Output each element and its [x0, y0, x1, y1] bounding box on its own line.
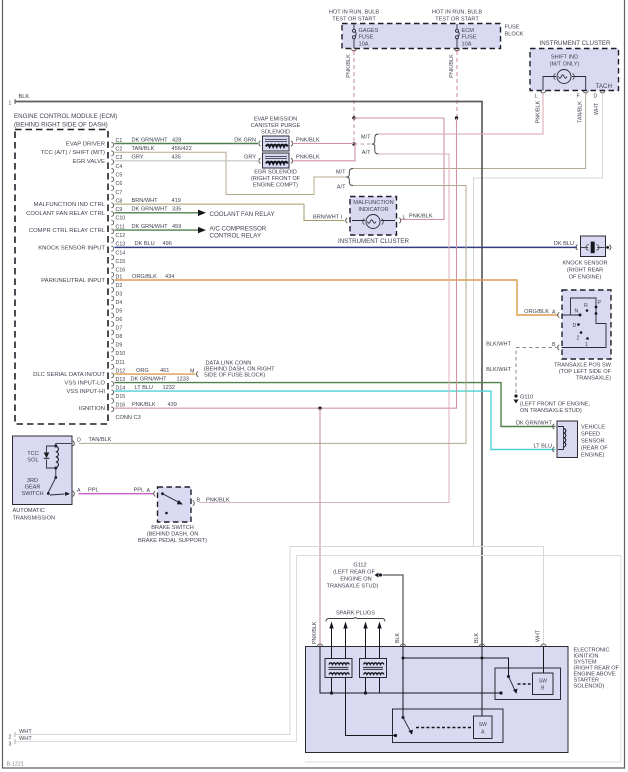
wire C3 GRY 435 to EGR solenoid [115, 160, 259, 162]
junction dot ecm feed [455, 116, 458, 119]
svg-text:419: 419 [172, 198, 181, 204]
svg-text:10A: 10A [462, 41, 472, 47]
wire PNK/BLK M/T branch to shift indicator [379, 133, 544, 135]
wire 2 WHT off-page to ignition system [15, 547, 544, 735]
svg-text:DK BLU: DK BLU [554, 241, 574, 247]
svg-text:D15: D15 [116, 394, 126, 400]
svg-text:DK GRN/WHT: DK GRN/WHT [516, 420, 553, 426]
svg-text:TEST OR START: TEST OR START [332, 17, 376, 23]
svg-text:CANISTER PURGE: CANISTER PURGE [251, 123, 301, 129]
svg-text:TRANSAXLE): TRANSAXLE) [576, 376, 611, 382]
svg-text:TAN/BLK: TAN/BLK [89, 437, 112, 443]
wire 1 BLK from off-page to ignition system [15, 102, 482, 647]
svg-text:3: 3 [9, 742, 12, 748]
wire 3 WHT off-page [15, 556, 621, 763]
svg-text:PNK/BLK: PNK/BLK [132, 402, 156, 408]
svg-text:ENGINE ON: ENGINE ON [340, 577, 371, 583]
svg-text:INDICATOR: INDICATOR [358, 207, 388, 213]
svg-text:D8: D8 [116, 334, 123, 340]
svg-text:VEHICLE: VEHICLE [581, 425, 605, 431]
svg-text:CONTROL RELAY: CONTROL RELAY [210, 232, 262, 239]
svg-text:A/T: A/T [337, 185, 346, 191]
svg-text:D5: D5 [116, 309, 123, 315]
svg-text:ORG/BLK: ORG/BLK [132, 274, 157, 280]
svg-text:D4: D4 [116, 300, 123, 306]
svg-text:PARK/NEUTRAL INPUT: PARK/NEUTRAL INPUT [41, 278, 105, 284]
svg-text:D16: D16 [116, 403, 126, 409]
svg-text:CONN C3: CONN C3 [116, 415, 141, 421]
svg-text:D6: D6 [116, 317, 123, 323]
spark plug arrows [331, 627, 333, 647]
svg-text:M: M [190, 368, 194, 374]
svg-text:TEST OR START: TEST OR START [435, 17, 479, 23]
wire BLK to SW A module [481, 647, 483, 717]
svg-text:EVAP DRIVER: EVAP DRIVER [66, 142, 105, 148]
svg-text:BRAKE PEDAL SUPPORT): BRAKE PEDAL SUPPORT) [138, 538, 207, 544]
wire C2 TAN/BLK 456/422 to M/T A/T split [115, 152, 349, 194]
svg-text:N: N [575, 309, 579, 315]
svg-text:SOL: SOL [27, 458, 38, 464]
ignition box top connector pins [317, 644, 322, 647]
svg-text:EGR VALVE: EGR VALVE [72, 159, 105, 165]
diode across TCC solenoid [47, 446, 56, 468]
svg-text:A: A [147, 488, 151, 494]
svg-text:OF ENGINE): OF ENGINE) [569, 275, 602, 281]
wire WHT to SW B module [543, 647, 545, 674]
svg-text:2: 2 [9, 735, 12, 741]
svg-text:D9: D9 [116, 343, 123, 349]
svg-text:PNK/BLK: PNK/BLK [536, 100, 542, 123]
svg-text:PNK/BLK: PNK/BLK [296, 137, 320, 143]
svg-text:(LEFT REAR OF: (LEFT REAR OF [333, 570, 375, 576]
svg-text:PNK/BLK: PNK/BLK [312, 621, 318, 644]
svg-text:ENGINE): ENGINE) [581, 453, 604, 459]
svg-text:335: 335 [172, 207, 181, 213]
svg-text:MALFUNCTION: MALFUNCTION [353, 200, 393, 206]
svg-text:COOLANT FAN RELAY CTRL: COOLANT FAN RELAY CTRL [26, 211, 106, 217]
ignition coil 2 [360, 659, 387, 678]
svg-text:P: P [598, 300, 602, 306]
svg-text:SW: SW [479, 722, 487, 728]
svg-text:LT BLU: LT BLU [534, 443, 552, 449]
wire PPL from transmission to brake switch [79, 493, 154, 495]
svg-text:FUSE: FUSE [505, 25, 520, 31]
ground G112 wire from ignition module [383, 575, 404, 647]
svg-text:PPL: PPL [88, 488, 99, 494]
shift indicator bulb [557, 70, 571, 84]
svg-text:1: 1 [9, 101, 12, 107]
wire PNK/BLK dashed feed from ECM fuse [456, 51, 458, 118]
svg-text:COMPR CTRL RELAY CTRL: COMPR CTRL RELAY CTRL [29, 228, 106, 234]
svg-text:BLK: BLK [19, 94, 30, 100]
svg-text:TCC: TCC [27, 451, 39, 457]
svg-text:C4: C4 [116, 164, 123, 170]
fuse exit connector (gages) [352, 49, 357, 52]
svg-text:SW: SW [539, 679, 547, 685]
M/T A/T brace 2 (tan) [346, 169, 353, 186]
svg-text:G112: G112 [353, 563, 366, 569]
svg-text:435: 435 [172, 155, 181, 161]
wire TAN/BLK from cluster pin F [353, 93, 586, 169]
svg-text:B-1221: B-1221 [7, 762, 24, 768]
svg-text:A: A [552, 310, 556, 316]
wire WHT from cluster pin D (tach) [474, 93, 603, 547]
svg-text:461: 461 [160, 368, 169, 374]
svg-text:1: 1 [585, 342, 588, 348]
svg-text:DK GRN/WHT: DK GRN/WHT [132, 224, 169, 230]
wire TAN/BLK A/T branch down to TCC solenoid [79, 186, 466, 444]
fuse exit connector (ecm) [455, 49, 460, 52]
instrument cluster box (top right) [530, 49, 619, 91]
wire D16 PNK/BLK 439 ignition feed up to ECM fuse [115, 118, 457, 408]
svg-text:VSS INPUT-LO: VSS INPUT-LO [64, 381, 105, 387]
svg-text:C8: C8 [116, 198, 123, 204]
svg-text:KNOCK SENSOR INPUT: KNOCK SENSOR INPUT [38, 245, 105, 251]
svg-text:GRY: GRY [132, 155, 144, 161]
svg-text:DK BLU: DK BLU [135, 241, 155, 247]
wire D14 LT BLU 1232 to VSS [115, 391, 556, 449]
svg-text:C7: C7 [116, 190, 123, 196]
switch B assembly [495, 668, 561, 700]
svg-text:1233: 1233 [177, 376, 189, 382]
EGR solenoid [263, 153, 290, 168]
svg-text:D7: D7 [116, 326, 123, 332]
svg-text:ORG: ORG [136, 368, 149, 374]
svg-text:C10: C10 [116, 216, 126, 222]
svg-text:L: L [403, 215, 406, 221]
svg-text:TCC (A/T) / SHIFT (M/T): TCC (A/T) / SHIFT (M/T) [41, 150, 105, 156]
svg-text:ENGINE COMPT): ENGINE COMPT) [253, 183, 298, 189]
wire PNK/BLK from EGR solenoid up to feed junction [293, 144, 356, 161]
svg-text:(RIGHT FRONT OF: (RIGHT FRONT OF [251, 176, 301, 182]
svg-text:VSS INPUT-HI: VSS INPUT-HI [66, 389, 105, 395]
svg-text:BRN/WHT: BRN/WHT [313, 214, 340, 220]
svg-text:BRN/WHT: BRN/WHT [132, 198, 159, 204]
knock sensor box [581, 236, 606, 257]
svg-text:D: D [594, 94, 598, 100]
3rd gear switch blade [55, 468, 57, 478]
transaxle position switch box [562, 290, 611, 359]
svg-text:WHT: WHT [594, 102, 600, 115]
svg-text:M/T: M/T [336, 170, 346, 176]
svg-text:DK GRN/WHT: DK GRN/WHT [132, 207, 169, 213]
wire PNK/BLK branch down to ignition system [319, 408, 321, 646]
wire C9 DK GRN/WHT 335 arrow to coolant fan relay [115, 212, 199, 214]
svg-text:456/422: 456/422 [172, 146, 192, 152]
svg-text:GEAR: GEAR [25, 485, 41, 491]
svg-text:M/T: M/T [361, 135, 371, 141]
vehicle speed sensor box [557, 421, 578, 458]
svg-text:ON TRANSAXLE STUD): ON TRANSAXLE STUD) [520, 408, 582, 414]
svg-text:PNK/BLK: PNK/BLK [296, 155, 320, 161]
svg-text:BLK/WHT: BLK/WHT [486, 341, 511, 347]
transmission pins D and A [73, 441, 75, 446]
svg-text:SENSOR: SENSOR [581, 439, 605, 445]
svg-text:SHIFT IND: SHIFT IND [551, 55, 578, 61]
wire C8 BRN/WHT 419 to malfunction indicator [115, 204, 345, 220]
svg-text:C14: C14 [116, 250, 126, 256]
svg-text:DK GRN: DK GRN [234, 138, 256, 144]
svg-text:A: A [77, 488, 81, 494]
svg-text:WHT: WHT [19, 736, 32, 742]
svg-text:434: 434 [165, 274, 174, 280]
svg-text:PNK/BLK: PNK/BLK [346, 54, 352, 78]
svg-text:496: 496 [163, 241, 172, 247]
wire from BLK ground pin to switch pivots [403, 647, 509, 718]
svg-text:HOT IN RUN, BULB: HOT IN RUN, BULB [329, 10, 380, 16]
svg-text:(M/T ONLY): (M/T ONLY) [550, 62, 580, 68]
svg-text:C5: C5 [116, 172, 123, 178]
dashed pnk segment to MT/AT brace junction [353, 118, 355, 144]
svg-text:10A: 10A [359, 41, 369, 47]
svg-text:SPEED: SPEED [581, 432, 600, 438]
svg-text:WHT: WHT [19, 729, 32, 735]
wire C1 DK GRN/WHT 428 to EVAP solenoid [115, 143, 259, 145]
svg-text:D10: D10 [116, 351, 126, 357]
svg-text:GRY: GRY [244, 155, 256, 161]
electronic ignition system box [306, 647, 569, 753]
svg-text:D: D [77, 438, 81, 444]
svg-text:TACH: TACH [596, 83, 612, 90]
wire C13 DK BLU 496 to knock sensor [115, 246, 578, 248]
svg-text:D3: D3 [116, 291, 123, 297]
MIL bulb [366, 215, 380, 229]
ECM dashed box [15, 130, 108, 425]
svg-text:TRANSMISSION: TRANSMISSION [13, 516, 56, 522]
wire C11 DK GRN/WHT 459 arrow to A/C compressor control relay [115, 229, 199, 231]
wire PNK/BLK dashed feed from GAGES fuse [353, 51, 355, 118]
malfunction indicator box [350, 197, 397, 236]
svg-text:PNK/BLK: PNK/BLK [206, 498, 230, 504]
svg-text:SIDE OF FUSE BLOCK): SIDE OF FUSE BLOCK) [204, 373, 265, 379]
svg-text:BLK: BLK [474, 633, 480, 643]
svg-text:BLOCK: BLOCK [505, 32, 524, 38]
svg-text:WHT: WHT [536, 629, 542, 642]
svg-text:TRANSAXLE POS SW: TRANSAXLE POS SW [554, 363, 612, 369]
junction dot D16 branch to ignition coils [318, 407, 321, 410]
svg-text:G110: G110 [520, 395, 533, 401]
svg-text:L: L [535, 94, 538, 100]
svg-text:TAN/BLK: TAN/BLK [578, 101, 584, 123]
PNK/BLK feed rail inside ignition box [320, 647, 501, 694]
svg-text:SOLENOID): SOLENOID) [574, 684, 605, 690]
fuse GAGES 10A [353, 24, 355, 29]
wire PNK/BLK from cluster pin L (shift ind, M/T) [379, 93, 544, 134]
cluster exit connectors [541, 91, 546, 94]
wire PNK/BLK from EVAP solenoid to feed junction [293, 143, 355, 145]
svg-text:ECM: ECM [462, 28, 475, 34]
svg-text:LT BLU: LT BLU [135, 385, 153, 391]
svg-text:FUSE: FUSE [359, 35, 374, 41]
svg-text:EGR SOLENOID: EGR SOLENOID [254, 170, 297, 176]
svg-text:ORG/BLK: ORG/BLK [524, 309, 549, 315]
svg-text:PNK/BLK: PNK/BLK [409, 213, 433, 219]
brake switch box [158, 487, 192, 522]
automatic transmission box [13, 436, 73, 505]
svg-text:459: 459 [172, 224, 181, 230]
svg-text:MALFUNCTION IND CTRL: MALFUNCTION IND CTRL [34, 202, 106, 208]
svg-text:1232: 1232 [163, 385, 175, 391]
wire PNK/BLK from gages fuse junction to MIL [354, 118, 444, 220]
svg-text:TRANSAXLE STUD): TRANSAXLE STUD) [327, 584, 379, 590]
svg-text:BRAKE SWITCH: BRAKE SWITCH [151, 525, 194, 531]
svg-text:B: B [197, 498, 201, 504]
svg-text:D2: D2 [116, 283, 123, 289]
svg-text:A/T: A/T [362, 150, 371, 156]
M/T A/T brace 1 (pnk) [354, 143, 371, 145]
svg-text:ENGINE CONTROL MODULE (ECM): ENGINE CONTROL MODULE (ECM) [14, 113, 117, 120]
switch contacts and selector [562, 314, 581, 316]
svg-text:2: 2 [577, 336, 580, 342]
svg-text:3RD: 3RD [27, 478, 38, 484]
svg-text:C2: C2 [116, 147, 123, 153]
ground G110 [514, 394, 517, 397]
wire D12 ORG 461 to data link connector pin M [115, 373, 196, 375]
svg-text:SPARK PLUGS: SPARK PLUGS [336, 611, 375, 617]
svg-text:DLC SERIAL DATA IN/OUT: DLC SERIAL DATA IN/OUT [33, 372, 105, 378]
svg-text:PPL: PPL [134, 488, 145, 494]
svg-text:(RIGHT REAR: (RIGHT REAR [567, 268, 603, 274]
svg-text:AUTOMATIC: AUTOMATIC [13, 508, 45, 514]
svg-text:HOT IN RUN, BULB: HOT IN RUN, BULB [432, 10, 483, 16]
svg-text:FUSE: FUSE [462, 35, 477, 41]
wire BLK/WHT from pin B to ground G110 [516, 348, 559, 395]
svg-text:C16: C16 [116, 268, 126, 274]
bulb wiring to pins L and F [543, 77, 586, 91]
svg-text:SWITCH: SWITCH [21, 491, 43, 497]
svg-text:GAGES: GAGES [359, 28, 379, 34]
wire PNK/BLK A/T branch down to brake switch [199, 154, 449, 503]
svg-text:(BEHIND RIGHT SIDE OF DASH): (BEHIND RIGHT SIDE OF DASH) [14, 122, 108, 129]
svg-text:(LEFT FRONT OF ENGINE,: (LEFT FRONT OF ENGINE, [520, 402, 590, 408]
svg-text:IGNITION: IGNITION [79, 406, 105, 412]
fuse ECM 10A [456, 24, 458, 29]
svg-text:(BEHIND DASH, ON: (BEHIND DASH, ON [147, 532, 199, 538]
svg-text:INSTRUMENT CLUSTER: INSTRUMENT CLUSTER [539, 40, 611, 47]
svg-text:C6: C6 [116, 181, 123, 187]
svg-text:439: 439 [168, 402, 177, 408]
svg-text:(REAR OF: (REAR OF [581, 446, 608, 452]
svg-text:C12: C12 [116, 233, 126, 239]
svg-text:C15: C15 [116, 259, 126, 265]
svg-text:INSTRUMENT CLUSTER: INSTRUMENT CLUSTER [338, 238, 410, 245]
svg-text:PNK/BLK: PNK/BLK [449, 54, 455, 78]
ignition coil 1 [325, 659, 352, 678]
svg-text:(TOP LEFT SIDE OF: (TOP LEFT SIDE OF [559, 369, 612, 375]
switch A assembly [393, 709, 504, 743]
svg-text:TAN/BLK: TAN/BLK [132, 146, 155, 152]
wire D1 ORG/BLK 434 to transaxle position switch pin A [115, 280, 559, 315]
svg-text:KNOCK SENSOR: KNOCK SENSOR [562, 261, 607, 267]
svg-text:D: D [573, 323, 577, 329]
svg-text:DK GRN/WHT: DK GRN/WHT [131, 376, 168, 382]
svg-text:R: R [584, 303, 588, 309]
svg-text:BLK: BLK [395, 633, 401, 643]
svg-text:BLK/WHT: BLK/WHT [486, 367, 511, 373]
svg-text:DK GRN/WHT: DK GRN/WHT [132, 138, 169, 144]
svg-text:I: I [341, 215, 342, 221]
junction dot gages feed [352, 116, 355, 119]
wire D13 DK GRN/WHT 1233 to VSS [115, 383, 556, 427]
ECM connector pins C1-C16 D1-D16 [111, 142, 113, 147]
svg-text:D11: D11 [116, 360, 125, 366]
svg-text:EVAP EMISSION: EVAP EMISSION [254, 117, 297, 123]
svg-text:COOLANT FAN RELAY: COOLANT FAN RELAY [210, 211, 275, 218]
fuse block box [342, 24, 501, 49]
svg-text:SOLENOID: SOLENOID [261, 130, 290, 136]
svg-text:428: 428 [172, 138, 181, 144]
TCC solenoid coil [56, 443, 71, 446]
